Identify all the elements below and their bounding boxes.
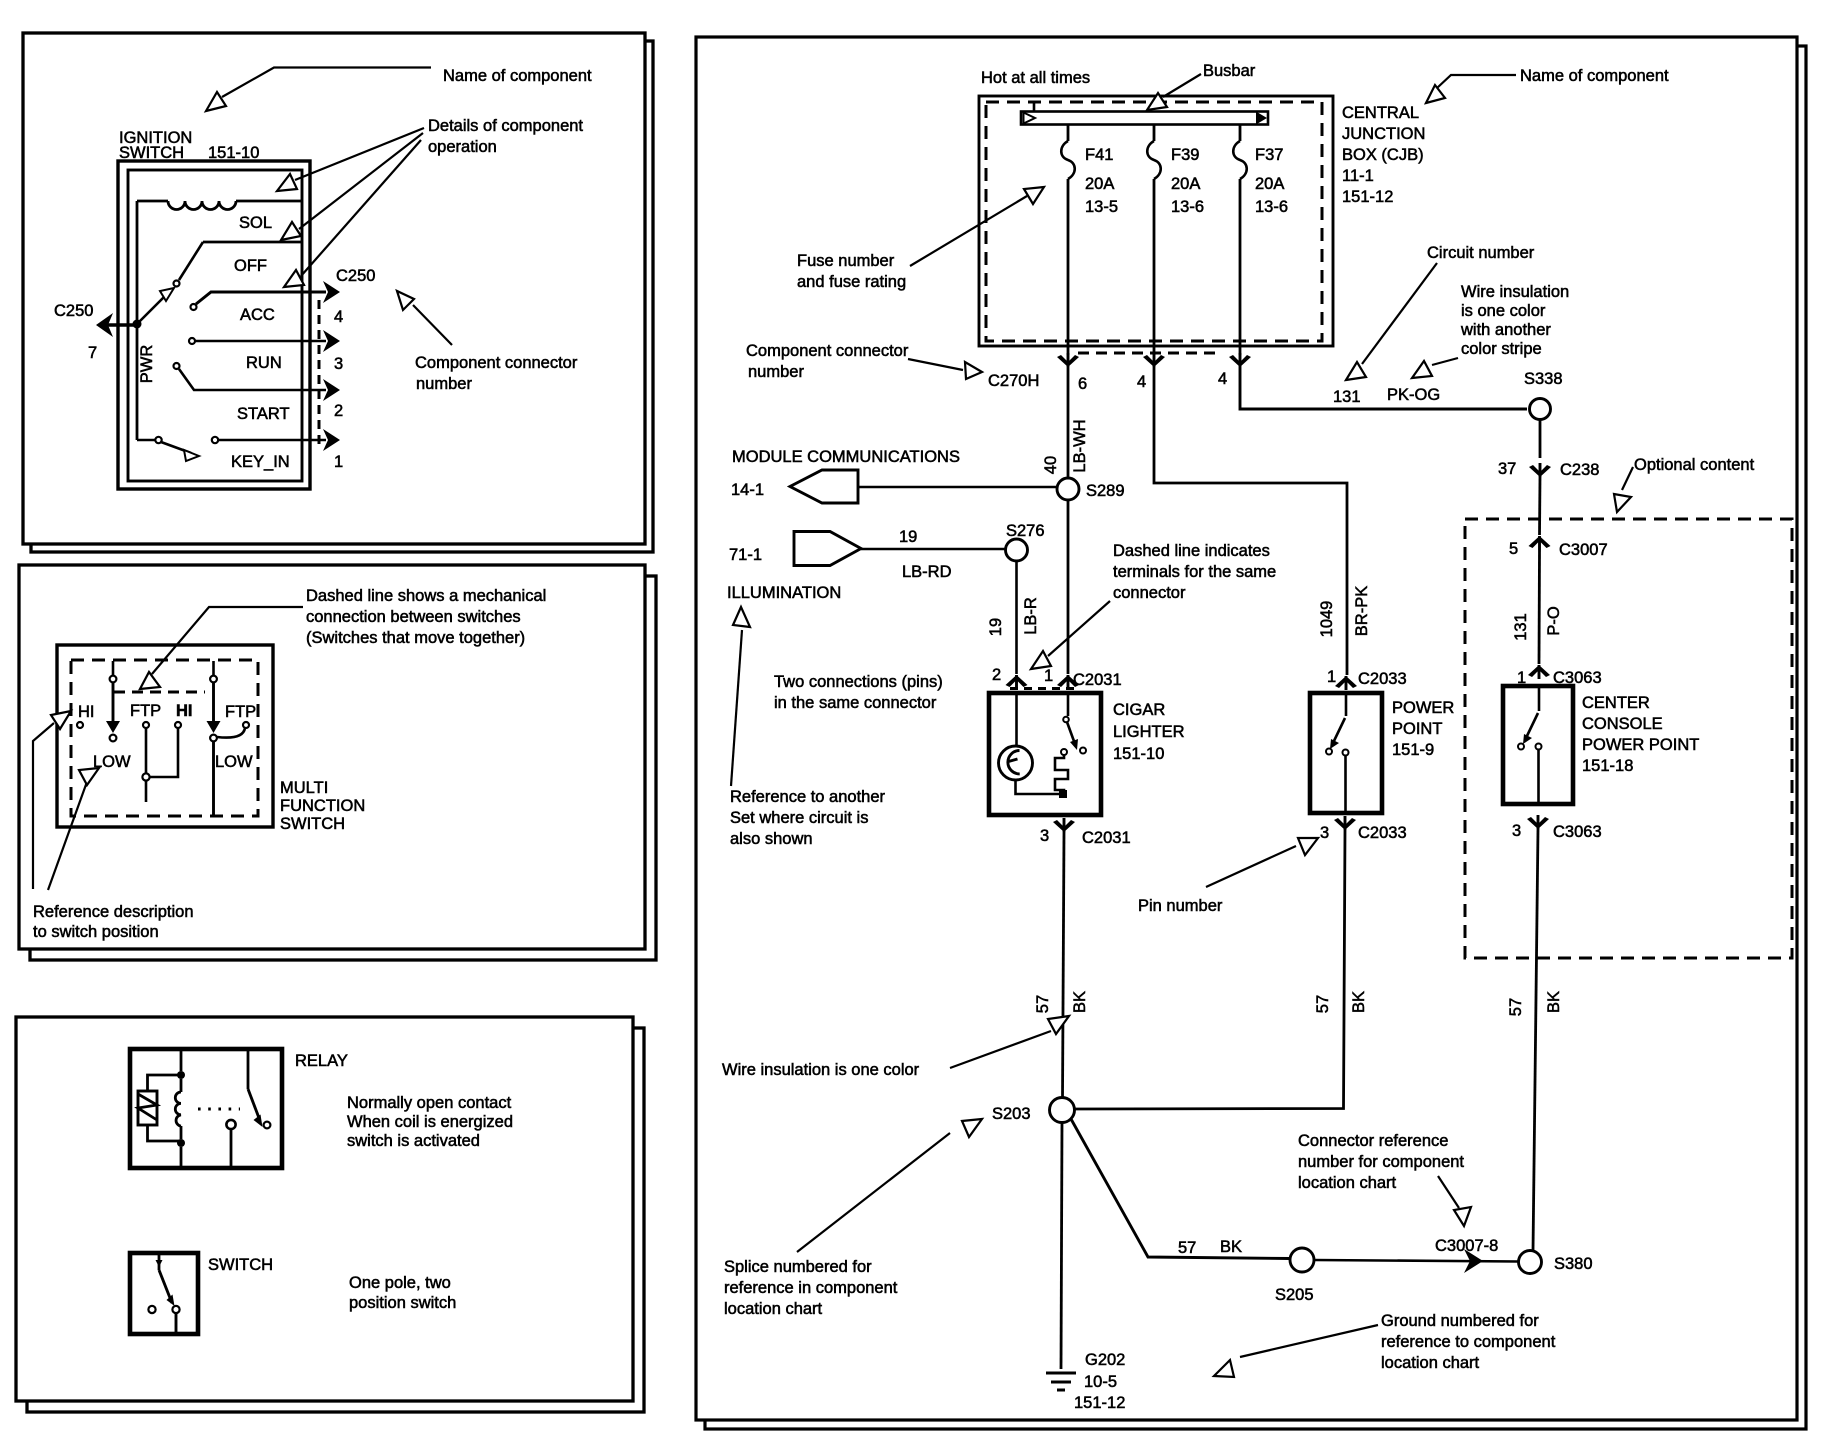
svg-text:20A: 20A <box>1085 175 1114 193</box>
svg-text:SWITCH: SWITCH <box>208 1256 273 1274</box>
svg-text:13-6: 13-6 <box>1171 198 1204 216</box>
switch 1 stem <box>112 661 115 675</box>
svg-text:ILLUMINATION: ILLUMINATION <box>727 584 841 602</box>
page shadow box 2 <box>30 576 656 960</box>
heater element <box>1061 749 1067 755</box>
C3063 bottom pin <box>1527 815 1549 829</box>
switch box <box>130 1253 198 1334</box>
connector chevrons below CJB <box>1057 353 1079 367</box>
page shadow right panel <box>705 46 1806 1429</box>
central junction box solid outline <box>979 96 1333 346</box>
svg-text:C2031: C2031 <box>1073 671 1122 689</box>
wire S203 to ground G202 <box>1061 1123 1062 1370</box>
right panel page box <box>696 37 1797 1420</box>
svg-text:Name of component: Name of component <box>443 67 592 85</box>
page shadow box 1 <box>31 41 653 552</box>
svg-text:JUNCTION: JUNCTION <box>1342 125 1425 143</box>
dashed connector line <box>318 300 321 449</box>
svg-text:C250: C250 <box>54 302 93 320</box>
central junction box dashed outline <box>986 102 1322 341</box>
svg-text:2: 2 <box>992 666 1001 684</box>
wire F39 to power point <box>1154 367 1347 675</box>
svg-text:19: 19 <box>987 618 1005 636</box>
svg-text:Details of component: Details of component <box>428 117 583 135</box>
svg-text:Component connector: Component connector <box>746 342 909 360</box>
ignition switch inner box <box>128 170 302 481</box>
callout: Splice numbered <box>797 1133 950 1252</box>
svg-text:C270H: C270H <box>988 372 1039 390</box>
C2031 bottom pin <box>1053 818 1075 832</box>
svg-text:1: 1 <box>334 453 343 471</box>
svg-text:POINT: POINT <box>1392 720 1442 738</box>
svg-text:LIGHTER: LIGHTER <box>1113 723 1185 741</box>
svg-text:Wire insulation: Wire insulation <box>1461 283 1569 301</box>
PWR bus vertical wire <box>136 201 139 440</box>
svg-text:Splice numbered for: Splice numbered for <box>724 1258 872 1276</box>
svg-text:reference in component: reference in component <box>724 1279 898 1297</box>
svg-text:3: 3 <box>1320 824 1329 842</box>
svg-text:Name of component: Name of component <box>1520 67 1669 85</box>
multi function switch dashed box <box>71 660 258 816</box>
svg-text:POWER POINT: POWER POINT <box>1582 736 1699 754</box>
svg-text:operation: operation <box>428 138 497 156</box>
wire to S289 <box>858 486 1057 489</box>
svg-text:LB-WH: LB-WH <box>1071 419 1089 472</box>
svg-text:4: 4 <box>334 308 343 326</box>
svg-text:C250: C250 <box>336 267 375 285</box>
svg-text:6: 6 <box>1078 375 1087 393</box>
OFF contact row <box>203 241 301 244</box>
svg-text:11-1: 11-1 <box>1342 167 1374 185</box>
svg-text:BOX (CJB): BOX (CJB) <box>1342 146 1424 164</box>
svg-text:3: 3 <box>1512 822 1521 840</box>
svg-text:FUNCTION: FUNCTION <box>280 797 365 815</box>
svg-text:Pin number: Pin number <box>1138 897 1223 915</box>
svg-text:7: 7 <box>88 344 97 362</box>
svg-text:ACC: ACC <box>240 306 275 324</box>
svg-text:Ground numbered for: Ground numbered for <box>1381 1312 1539 1330</box>
C2031 top pins <box>1006 675 1028 689</box>
cigar lighter switch <box>1067 693 1070 716</box>
svg-text:When coil is energized: When coil is energized <box>347 1113 513 1131</box>
svg-text:terminals for the same: terminals for the same <box>1113 563 1276 581</box>
svg-text:1: 1 <box>1327 668 1336 686</box>
svg-text:2: 2 <box>334 402 343 420</box>
wire power point to S203 row <box>1074 830 1345 1109</box>
svg-text:57: 57 <box>1507 998 1525 1016</box>
relay coil branch <box>180 1051 183 1071</box>
svg-text:57: 57 <box>1034 995 1052 1013</box>
svg-text:BR-PK: BR-PK <box>1353 586 1371 636</box>
svg-text:HI: HI <box>176 702 193 720</box>
svg-text:Circuit number: Circuit number <box>1427 244 1535 262</box>
svg-text:57: 57 <box>1178 1239 1196 1257</box>
busbar stub to box top <box>1033 102 1036 111</box>
relay dotted actuator line <box>198 1108 240 1111</box>
svg-text:connector: connector <box>1113 584 1186 602</box>
svg-text:4: 4 <box>1218 370 1227 388</box>
svg-text:14-1: 14-1 <box>731 481 764 499</box>
svg-text:1049: 1049 <box>1318 601 1336 638</box>
svg-text:10-5: 10-5 <box>1084 1373 1117 1391</box>
svg-text:Reference to another: Reference to another <box>730 788 886 806</box>
fuse F37 <box>1239 125 1242 141</box>
cigar lighter box <box>989 693 1101 815</box>
relay resistor branch <box>148 1075 182 1091</box>
svg-text:FTP: FTP <box>130 702 161 720</box>
svg-text:also shown: also shown <box>730 830 813 848</box>
svg-text:CENTER: CENTER <box>1582 694 1650 712</box>
svg-text:PK-OG: PK-OG <box>1387 386 1440 404</box>
C2033 bottom pin <box>1334 816 1356 830</box>
svg-text:LB-R: LB-R <box>1022 597 1040 635</box>
svg-text:CENTRAL: CENTRAL <box>1342 104 1419 122</box>
svg-text:FTP: FTP <box>225 703 256 721</box>
svg-text:S276: S276 <box>1006 522 1045 540</box>
svg-text:C2031: C2031 <box>1082 829 1131 847</box>
mechanical connection dashed line <box>114 691 205 694</box>
START contact row <box>174 363 180 369</box>
svg-text:71-1: 71-1 <box>729 546 762 564</box>
svg-text:switch is activated: switch is activated <box>347 1132 480 1150</box>
splice S276 <box>1006 539 1028 561</box>
svg-text:C2033: C2033 <box>1358 670 1407 688</box>
svg-text:Normally open contact: Normally open contact <box>347 1094 512 1112</box>
C2033 top pin <box>1335 676 1357 690</box>
svg-text:37: 37 <box>1498 460 1516 478</box>
svg-text:151-12: 151-12 <box>1074 1394 1125 1412</box>
svg-text:SWITCH: SWITCH <box>280 815 345 833</box>
svg-text:number: number <box>416 375 472 393</box>
svg-text:POWER: POWER <box>1392 699 1454 717</box>
wire S289 down to C2031 pin 1 <box>1067 500 1070 674</box>
svg-text:CIGAR: CIGAR <box>1113 701 1165 719</box>
svg-text:5: 5 <box>1509 540 1518 558</box>
ccpp switch <box>1538 686 1541 711</box>
legend page box 3 <box>16 1017 633 1401</box>
svg-text:Set where circuit is: Set where circuit is <box>730 809 868 827</box>
relay switch <box>247 1051 250 1089</box>
wire F41 down to S289 <box>1067 367 1070 478</box>
svg-text:location chart: location chart <box>724 1300 823 1318</box>
svg-text:START: START <box>237 405 290 423</box>
svg-text:Component connector: Component connector <box>415 354 578 372</box>
svg-text:P-O: P-O <box>1545 606 1563 636</box>
svg-text:20A: 20A <box>1255 175 1284 193</box>
fuse F41 <box>1067 125 1070 141</box>
svg-text:Hot at all times: Hot at all times <box>981 69 1090 87</box>
ground G202 <box>1046 1372 1076 1375</box>
lamp wire and bulb <box>1015 693 1018 746</box>
svg-text:151-18: 151-18 <box>1582 757 1633 775</box>
svg-text:1: 1 <box>1044 667 1053 685</box>
svg-text:PWR: PWR <box>138 345 156 384</box>
svg-text:Fuse number: Fuse number <box>797 252 895 270</box>
svg-text:BK: BK <box>1545 991 1563 1013</box>
svg-text:Two connections (pins): Two connections (pins) <box>774 673 943 691</box>
svg-text:connection between switches: connection between switches <box>306 608 521 626</box>
svg-text:reference to component: reference to component <box>1381 1333 1556 1351</box>
svg-text:Optional content: Optional content <box>1634 456 1755 474</box>
svg-text:CONSOLE: CONSOLE <box>1582 715 1663 733</box>
svg-text:13-6: 13-6 <box>1255 198 1288 216</box>
svg-text:LB-RD: LB-RD <box>902 563 952 581</box>
svg-text:(Switches that move together): (Switches that move together) <box>306 629 525 647</box>
wire S203 diagonal to S205 <box>1071 1119 1290 1259</box>
svg-text:and fuse rating: and fuse rating <box>797 273 906 291</box>
svg-text:13-5: 13-5 <box>1085 198 1118 216</box>
svg-text:Dashed line shows a mechanical: Dashed line shows a mechanical <box>306 587 546 605</box>
svg-text:57: 57 <box>1314 995 1332 1013</box>
svg-text:in the same connector: in the same connector <box>774 694 937 712</box>
svg-text:LOW: LOW <box>215 753 253 771</box>
splice S338 <box>1530 399 1551 420</box>
svg-text:S338: S338 <box>1524 370 1563 388</box>
svg-text:4: 4 <box>1137 373 1146 391</box>
svg-text:Dashed line indicates: Dashed line indicates <box>1113 542 1270 560</box>
svg-text:131: 131 <box>1512 613 1530 641</box>
svg-text:color stripe: color stripe <box>1461 340 1542 358</box>
svg-text:F41: F41 <box>1085 146 1113 164</box>
svg-text:S205: S205 <box>1275 1286 1314 1304</box>
callout arrow to ILLUMINATION <box>731 630 742 786</box>
svg-text:S380: S380 <box>1554 1255 1593 1273</box>
svg-text:C2033: C2033 <box>1358 824 1407 842</box>
center console power point box <box>1503 686 1573 804</box>
wire cigar lighter to S203 <box>1063 832 1065 1098</box>
wire to S276 <box>861 548 1005 551</box>
switch symbol <box>158 1255 161 1270</box>
svg-text:3: 3 <box>1040 827 1049 845</box>
svg-text:C3007-8: C3007-8 <box>1435 1237 1498 1255</box>
svg-text:G202: G202 <box>1085 1351 1125 1369</box>
svg-text:Reference description: Reference description <box>33 903 194 921</box>
connector C270H dashed line <box>1078 352 1221 355</box>
svg-text:20A: 20A <box>1171 175 1200 193</box>
svg-text:MULTI: MULTI <box>280 779 328 797</box>
multi function switch solid box <box>57 645 273 827</box>
svg-text:RUN: RUN <box>246 354 282 372</box>
svg-text:3: 3 <box>334 355 343 373</box>
svg-text:131: 131 <box>1333 388 1361 406</box>
wire into optional box <box>1538 477 1541 535</box>
ignition switch outer box <box>118 161 310 489</box>
legend page box 1 <box>23 33 645 544</box>
svg-text:One pole, two: One pole, two <box>349 1274 451 1292</box>
svg-text:S203: S203 <box>992 1105 1031 1123</box>
svg-text:151-10: 151-10 <box>1113 745 1164 763</box>
svg-text:C3007: C3007 <box>1559 541 1608 559</box>
relay box <box>130 1049 282 1168</box>
svg-text:19: 19 <box>899 528 917 546</box>
svg-text:MODULE COMMUNICATIONS: MODULE COMMUNICATIONS <box>732 448 960 466</box>
legend page box 2 <box>19 565 645 949</box>
page shadow box 3 <box>27 1028 644 1412</box>
pivot node and moving arm <box>133 320 142 329</box>
coil (solenoid) wire with scallops <box>137 200 301 203</box>
wire S205 to S380 with arrow <box>1314 1260 1518 1262</box>
svg-text:F37: F37 <box>1255 146 1283 164</box>
svg-text:location chart: location chart <box>1381 1354 1480 1372</box>
power point box <box>1310 693 1382 813</box>
svg-text:BK: BK <box>1220 1238 1242 1256</box>
svg-text:Connector reference: Connector reference <box>1298 1132 1448 1150</box>
svg-text:number: number <box>748 363 804 381</box>
switch 3 stem <box>212 661 215 675</box>
svg-text:OFF: OFF <box>234 257 267 275</box>
fuse F39 <box>1153 125 1156 141</box>
svg-text:KEY_IN: KEY_IN <box>231 453 290 471</box>
optional content dashed box <box>1465 519 1792 958</box>
svg-text:HI: HI <box>78 703 95 721</box>
RUN contact row <box>189 338 195 344</box>
svg-text:BK: BK <box>1350 991 1368 1013</box>
C250 left arrow to pin 7 <box>104 323 137 327</box>
splice S203 <box>1050 1098 1075 1123</box>
svg-text:is one color: is one color <box>1461 302 1546 320</box>
svg-text:151-9: 151-9 <box>1392 741 1434 759</box>
svg-text:number for component: number for component <box>1298 1153 1464 1171</box>
svg-text:40: 40 <box>1042 456 1060 474</box>
ACC contact row <box>191 304 197 310</box>
wire S338 down <box>1539 420 1542 459</box>
svg-text:S289: S289 <box>1086 482 1125 500</box>
svg-text:position switch: position switch <box>349 1294 456 1312</box>
svg-text:with another: with another <box>1460 321 1551 339</box>
splice S205 <box>1290 1248 1314 1272</box>
wire ccpp down to S380 <box>1533 829 1538 1251</box>
splice S289 <box>1057 478 1079 500</box>
KEY_IN contact row <box>137 439 155 442</box>
svg-text:SOL: SOL <box>239 214 272 232</box>
svg-text:RELAY: RELAY <box>295 1052 348 1070</box>
wire S276 down to C2031 pin 2 <box>1015 561 1018 674</box>
svg-text:C3063: C3063 <box>1553 823 1602 841</box>
svg-text:F39: F39 <box>1171 146 1199 164</box>
dashed line same connector <box>1010 687 1074 690</box>
svg-text:Busbar: Busbar <box>1203 62 1256 80</box>
splice S380 <box>1519 1251 1542 1274</box>
svg-text:location chart: location chart <box>1298 1174 1397 1192</box>
svg-text:BK: BK <box>1071 991 1089 1013</box>
svg-text:C238: C238 <box>1560 461 1599 479</box>
busbar <box>1021 112 1268 125</box>
wire F37 to S338 <box>1240 367 1527 409</box>
svg-text:to switch position: to switch position <box>33 923 159 941</box>
power point switch <box>1345 693 1348 716</box>
svg-text:Wire insulation is one color: Wire insulation is one color <box>722 1061 920 1079</box>
svg-text:151-12: 151-12 <box>1342 188 1393 206</box>
